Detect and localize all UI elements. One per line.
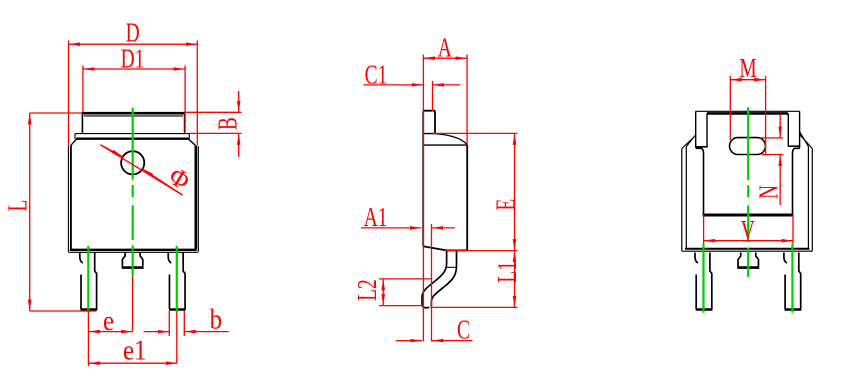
svg-text:N: N	[755, 185, 785, 199]
green centerline front center	[132, 108, 134, 276]
svg-text:Φ: Φ	[164, 161, 195, 196]
dimension L	[4, 113, 97, 311]
svg-text:M: M	[739, 54, 756, 84]
dimension A	[423, 34, 467, 342]
dimension e	[88, 304, 132, 336]
outer sides and bottom	[682, 147, 813, 252]
svg-text:L2: L2	[353, 279, 383, 301]
body side outline	[423, 111, 467, 251]
oval slot	[730, 138, 766, 155]
dimension V	[704, 215, 793, 246]
dimension C	[396, 316, 473, 346]
dimension L2	[353, 279, 431, 306]
tab side	[423, 111, 435, 134]
inner cavity outline	[696, 146, 800, 215]
back view left lead	[695, 253, 712, 310]
green centerline back right lead	[791, 244, 793, 313]
svg-text:A: A	[438, 34, 452, 64]
dimension D1	[83, 45, 185, 135]
center stub front	[122, 253, 144, 268]
body outline	[68, 146, 198, 253]
svg-text:L: L	[4, 200, 34, 212]
svg-text:E: E	[491, 199, 521, 211]
dimension B	[185, 91, 244, 157]
svg-text:e1: e1	[123, 334, 147, 366]
tab top edge	[82, 112, 184, 134]
svg-text:D1: D1	[121, 45, 145, 75]
back view center stub	[737, 253, 759, 268]
svg-text:L1: L1	[493, 261, 523, 283]
body step lines	[71, 134, 196, 146]
lead side (s-bend)	[422, 250, 457, 307]
green centerline back left lead	[702, 244, 704, 313]
svg-text:V: V	[741, 216, 755, 246]
dimension A1	[361, 203, 455, 341]
dimension N	[755, 114, 785, 205]
dimension phi (hole diameter)	[100, 145, 195, 196]
dimension D	[69, 19, 198, 146]
hole circle	[121, 151, 144, 174]
green centerline front right lead	[176, 246, 178, 312]
dimension M	[730, 54, 765, 154]
green centerline front left lead	[87, 246, 89, 312]
outer outline top	[682, 111, 813, 148]
left lead front	[80, 253, 97, 310]
svg-text:B: B	[213, 117, 243, 130]
dimension b	[144, 303, 229, 336]
svg-text:e: e	[103, 304, 114, 336]
back view right lead	[784, 253, 801, 310]
dimension e1	[88, 334, 177, 366]
dimension E	[433, 133, 521, 250]
dimension L1	[433, 251, 523, 308]
inner tab verticals	[707, 113, 788, 146]
svg-text:b: b	[210, 303, 222, 335]
dimension C1	[364, 60, 461, 111]
svg-text:A1: A1	[364, 203, 388, 233]
green centerline back center	[747, 107, 749, 277]
right lead front	[168, 253, 185, 310]
red centerline extensions front	[88, 276, 176, 366]
svg-text:C1: C1	[365, 60, 388, 90]
svg-text:C: C	[457, 316, 470, 346]
